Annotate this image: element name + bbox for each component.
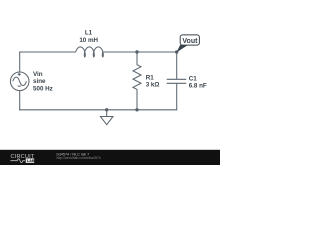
svg-text:http://circuitlab.com/c/ba4574: http://circuitlab.com/c/ba4574 (57, 156, 101, 160)
svg-text:Vin: Vin (33, 71, 43, 78)
wire: top rail, left segment (19, 51, 76, 53)
svg-text:500 Hz: 500 Hz (33, 85, 53, 92)
wire: bottom rail (19, 109, 177, 111)
svg-text:3 kΩ: 3 kΩ (146, 82, 160, 89)
svg-text:Vout: Vout (182, 38, 198, 45)
voltage source sine wave (13, 77, 27, 85)
svg-text:L1: L1 (85, 30, 93, 37)
source minus sign (18, 85, 21, 87)
ground triangle (100, 117, 113, 125)
voltage source V1 circle (10, 72, 29, 91)
node dot: ground junction (105, 108, 108, 111)
Vout flag tail (176, 45, 187, 53)
capacitor C1 bottom lead (176, 83, 178, 110)
capacitor C1 top plate (167, 78, 187, 80)
resistor R1 (133, 52, 141, 110)
svg-text:6.8 nF: 6.8 nF (189, 83, 207, 90)
ground stem (106, 110, 108, 117)
node dot: R1 bottom junction (135, 108, 138, 111)
inductor L1 coil (76, 47, 104, 57)
capacitor C1 bottom plate (167, 82, 187, 84)
logo wave (10, 159, 25, 163)
wire: top-left vertical (source top to rail) (19, 52, 21, 72)
wire: top rail, right of coil (103, 51, 178, 53)
svg-text:10 mH: 10 mH (79, 37, 98, 44)
node dot: R1 top junction (135, 50, 138, 53)
logo LAB box (26, 158, 35, 163)
svg-text:C1: C1 (189, 75, 198, 82)
svg-text:R1: R1 (146, 74, 155, 81)
svg-text:sine: sine (33, 78, 46, 85)
svg-text:LAB: LAB (27, 158, 35, 163)
footer bar (0, 150, 220, 165)
Vout flag box (180, 35, 199, 45)
wire: bottom-left vertical (source bottom to rail) (19, 91, 21, 111)
source plus sign (18, 73, 21, 76)
node dot: Vout corner junction (175, 50, 178, 53)
capacitor C1 top lead (176, 52, 178, 79)
